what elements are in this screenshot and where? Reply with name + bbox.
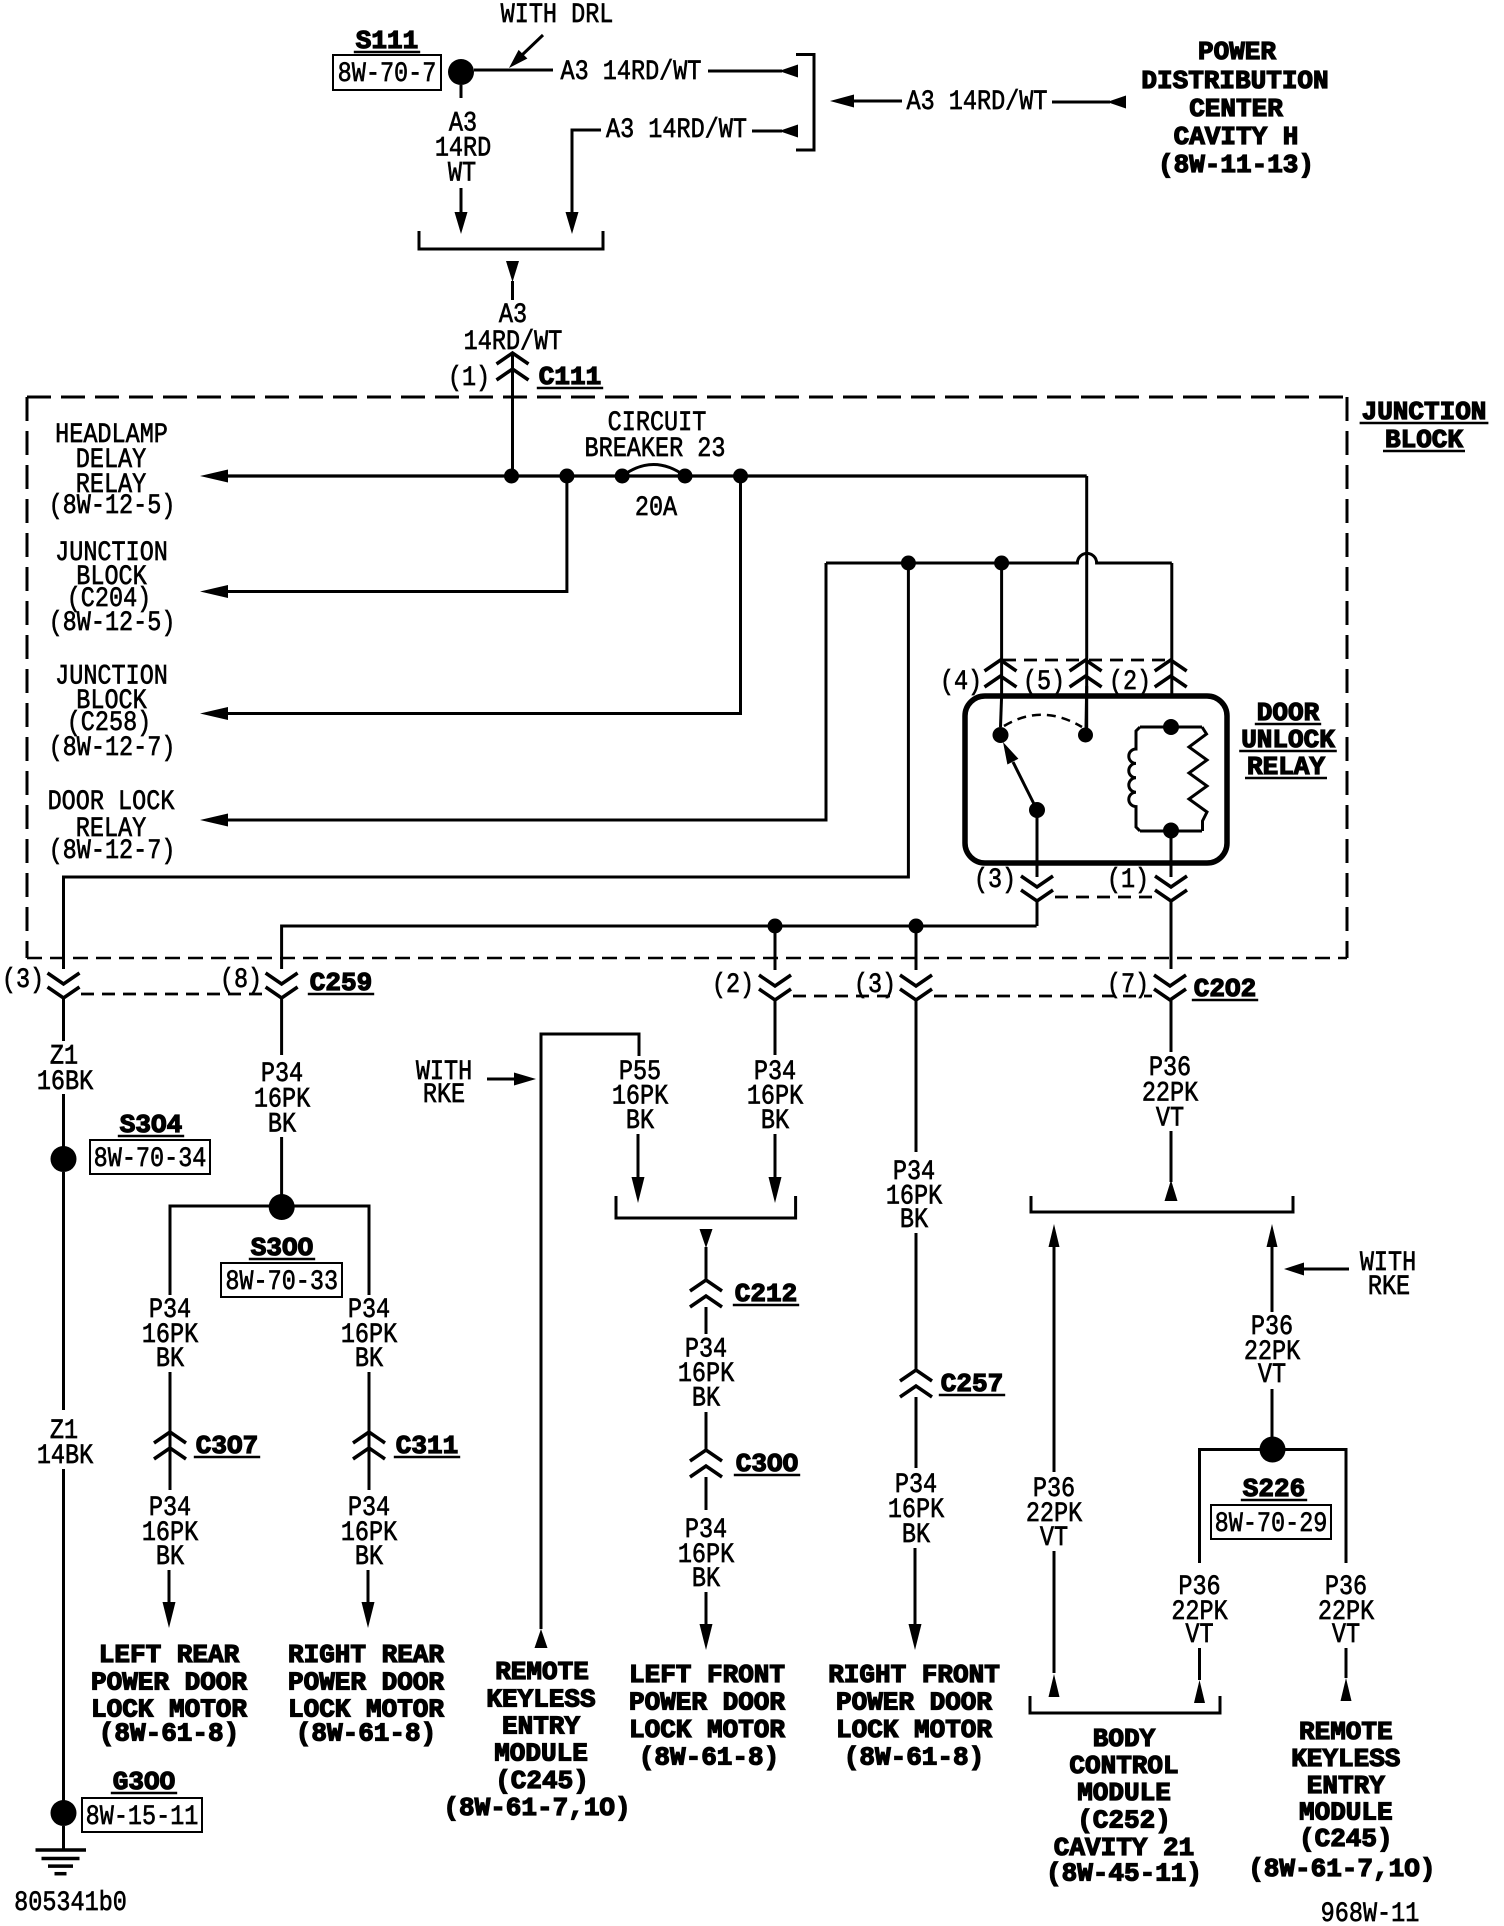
svg-text:BK: BK	[268, 1109, 297, 1140]
svg-text:16BK: 16BK	[37, 1066, 94, 1097]
svg-text:POWER DOOR: POWER DOOR	[91, 1668, 247, 1698]
svg-text:BODY: BODY	[1093, 1724, 1156, 1754]
pointer arrow from WITH DRL label to wire	[521, 35, 543, 56]
wire to C311	[368, 1372, 371, 1490]
svg-text:(1): (1)	[448, 362, 490, 393]
junction block dashed border	[27, 396, 1347, 399]
relay armature dashed travel arc	[1004, 715, 1082, 727]
wire stub below S111 dot	[460, 85, 463, 98]
svg-text:(8W-61-7,1O): (8W-61-7,1O)	[1248, 1854, 1435, 1884]
svg-text:(1): (1)	[1107, 864, 1149, 895]
merge bracket for A3 wires	[419, 231, 603, 249]
ground symbol	[62, 1826, 65, 1850]
svg-text:BK: BK	[355, 1541, 384, 1572]
relay pins 3 and 1 chevrons	[1021, 876, 1053, 887]
relay pin 4 contact dot	[1001, 696, 1002, 727]
wire S226 left to BCM	[1198, 1648, 1201, 1680]
svg-text:BK: BK	[156, 1541, 185, 1572]
wire continues to BCM connector	[1053, 1551, 1056, 1673]
svg-text:A3 14RD/WT: A3 14RD/WT	[606, 114, 747, 145]
splice G300 dot	[51, 1800, 77, 1826]
svg-text:RKE: RKE	[423, 1079, 465, 1110]
wire and arrow to merge bracket	[637, 1134, 640, 1178]
wire to S226 dot	[1271, 1389, 1274, 1437]
wire to G300	[62, 1469, 65, 1801]
motor feed line y926	[282, 926, 1037, 969]
svg-text:CONTROL: CONTROL	[1069, 1751, 1178, 1781]
relay coil/resistor top and bottom rails	[1140, 726, 1202, 729]
svg-text:LOCK MOTOR: LOCK MOTOR	[629, 1715, 785, 1745]
connector C311 chevrons	[353, 1432, 385, 1443]
box 8W-70-29	[1211, 1505, 1331, 1539]
svg-text:(8W-61-8): (8W-61-8)	[639, 1743, 779, 1773]
wire (2) column from feed line	[774, 926, 777, 970]
svg-text:(3): (3)	[2, 964, 44, 995]
node branch C258	[733, 469, 748, 484]
svg-text:VT: VT	[1156, 1103, 1184, 1134]
splice S226 dot	[1260, 1437, 1286, 1463]
svg-text:(8W-45-11): (8W-45-11)	[1046, 1859, 1202, 1889]
svg-text:ENTRY: ENTRY	[1307, 1771, 1385, 1801]
svg-text:(3): (3)	[854, 969, 896, 1000]
wire and arrow to merge bracket	[774, 1134, 777, 1178]
connector C212 chevrons	[690, 1280, 722, 1291]
connector C307 chevrons	[154, 1432, 186, 1443]
svg-text:(8W-61-8): (8W-61-8)	[296, 1719, 436, 1749]
arrow WITH RKE pointing to wire	[1303, 1268, 1349, 1271]
wire to BCM	[1053, 1247, 1056, 1472]
svg-text:REMOTE: REMOTE	[495, 1657, 589, 1687]
wire below merge bracket	[700, 1229, 713, 1248]
svg-text:MODULE: MODULE	[494, 1739, 588, 1769]
wire below C300	[705, 1477, 708, 1510]
box 8W-15-11	[82, 1798, 202, 1832]
svg-text:(8W-61-8): (8W-61-8)	[99, 1719, 239, 1749]
svg-text:A3 14RD/WT: A3 14RD/WT	[561, 56, 702, 87]
svg-text:(7): (7)	[1107, 969, 1149, 1000]
svg-text:8W-15-11: 8W-15-11	[86, 1801, 199, 1832]
wire (7) column below C202	[1170, 998, 1173, 1052]
wire below C257	[915, 1397, 918, 1468]
wire C111 into junction block	[511, 355, 514, 476]
wire to branch bracket	[1170, 1131, 1173, 1182]
node at C111 drop	[504, 469, 519, 484]
wire S304 down	[62, 1172, 65, 1410]
relay pin 3 wire	[1036, 810, 1039, 877]
svg-text:BK: BK	[156, 1343, 185, 1374]
svg-text:(C252): (C252)	[1077, 1806, 1171, 1836]
svg-text:BK: BK	[900, 1204, 929, 1235]
branch wire to junction block C204	[228, 476, 567, 592]
wire below (8) to P34 label	[280, 998, 283, 1055]
svg-text:8W-70-33: 8W-70-33	[225, 1266, 338, 1297]
relay coil (left branch)	[1129, 727, 1140, 831]
wire down to merge bracket with down arrow	[460, 188, 463, 214]
box 8W-70-33	[221, 1263, 342, 1297]
wire to C257	[915, 1233, 918, 1369]
svg-text:ENTRY: ENTRY	[502, 1712, 580, 1742]
svg-text:VT: VT	[1185, 1619, 1213, 1650]
node to door lock motors branch	[901, 556, 916, 571]
wire (3) column	[915, 926, 918, 970]
svg-text:(8W-12-5): (8W-12-5)	[49, 490, 176, 521]
svg-text:14BK: 14BK	[37, 1440, 94, 1471]
svg-text:(8W-12-7): (8W-12-7)	[49, 835, 176, 866]
svg-text:POWER DOOR: POWER DOOR	[288, 1668, 444, 1698]
terminal arrow into BCM right	[1194, 1680, 1205, 1703]
connector C300 chevrons	[690, 1450, 722, 1461]
svg-text:8W-70-7: 8W-70-7	[338, 58, 437, 89]
wire to C307	[169, 1372, 172, 1490]
S226 branch rails	[1200, 1450, 1347, 1564]
svg-text:(C245): (C245)	[495, 1766, 589, 1796]
svg-text:(2): (2)	[1109, 666, 1151, 697]
wire relay pin 2 corner	[1170, 563, 1173, 696]
relay switch blade with arrow	[1013, 762, 1037, 810]
terminal arrow into BCM	[1049, 1674, 1060, 1697]
svg-text:WITH DRL: WITH DRL	[501, 0, 614, 31]
circuit breaker 23	[615, 469, 630, 484]
svg-text:POWER DOOR: POWER DOOR	[836, 1688, 992, 1718]
relay resistor (right branch)	[1189, 727, 1207, 831]
relay switch pivot dot	[1029, 802, 1045, 818]
svg-text:POWER: POWER	[1198, 37, 1276, 67]
svg-text:LOCK MOTOR: LOCK MOTOR	[836, 1715, 992, 1745]
svg-text:VT: VT	[1332, 1619, 1360, 1650]
door unlock relay case	[965, 696, 1227, 863]
svg-text:MODULE: MODULE	[1077, 1778, 1171, 1808]
wire down-left to Z1 ground column	[64, 563, 909, 969]
wire and arrow into left rear motor	[168, 1570, 171, 1602]
branch bracket under C202 wire	[1031, 1196, 1293, 1212]
svg-text:BK: BK	[692, 1383, 721, 1414]
svg-text:VT: VT	[1258, 1359, 1286, 1390]
svg-text:LEFT REAR: LEFT REAR	[99, 1640, 240, 1670]
splice S304 dot	[51, 1146, 77, 1172]
svg-text:RIGHT REAR: RIGHT REAR	[288, 1640, 444, 1670]
node to connector 2	[768, 919, 783, 934]
node to connector 3	[909, 919, 924, 934]
wire below C212	[705, 1307, 708, 1334]
svg-text:(8W-12-7): (8W-12-7)	[49, 732, 176, 763]
terminal arrow into remote keyless entry module	[535, 1629, 548, 1648]
svg-text:A3 14RD/WT: A3 14RD/WT	[907, 86, 1048, 117]
svg-text:LEFT FRONT: LEFT FRONT	[629, 1660, 785, 1690]
wire and arrow into right front motor	[914, 1548, 917, 1624]
svg-text:CAVITY H: CAVITY H	[1174, 122, 1299, 152]
svg-text:DISTRIBUTION: DISTRIBUTION	[1141, 66, 1328, 96]
relay bottom node dot	[1163, 823, 1179, 839]
svg-text:VT: VT	[1040, 1522, 1068, 1553]
svg-text:POWER DOOR: POWER DOOR	[629, 1688, 785, 1718]
svg-text:(8W-11-13): (8W-11-13)	[1158, 150, 1314, 180]
merge bracket P55/P34	[616, 1196, 796, 1218]
svg-text:KEYLESS: KEYLESS	[486, 1685, 595, 1715]
svg-text:RKE: RKE	[1368, 1271, 1410, 1302]
bracket at PDC feed	[796, 55, 814, 151]
wire and arrow into right rear motor	[367, 1570, 370, 1602]
relay pin 1 wire	[1170, 831, 1173, 877]
svg-text:(8): (8)	[220, 964, 262, 995]
dashed row C259	[81, 993, 264, 996]
svg-text:8W-70-34: 8W-70-34	[94, 1143, 207, 1174]
svg-text:RIGHT FRONT: RIGHT FRONT	[828, 1660, 1000, 1690]
svg-text:(3): (3)	[974, 864, 1016, 895]
svg-text:BK: BK	[355, 1343, 384, 1374]
svg-text:805341b0: 805341b0	[14, 1887, 127, 1918]
second branch corner and label A3 14RD/WT	[572, 130, 601, 214]
wire to door lock relay	[228, 563, 826, 820]
box 8W-70-34	[90, 1140, 210, 1174]
svg-text:968W-11: 968W-11	[1321, 1898, 1420, 1926]
relay connector pins 4 5 2 chevrons	[985, 660, 1017, 671]
dashed row C202	[793, 995, 898, 998]
svg-text:(2): (2)	[712, 969, 754, 1000]
arrow WITH RKE to wire	[487, 1078, 516, 1081]
wire to relay pin 4	[1000, 563, 1003, 696]
distribution wire y563 with hop	[826, 553, 1172, 563]
svg-text:BK: BK	[626, 1105, 655, 1136]
start arrow right branch to S226	[1267, 1224, 1278, 1247]
wire to splice S300	[280, 1137, 283, 1196]
svg-text:BK: BK	[902, 1519, 931, 1550]
connector C259 chevrons (3)(8)	[48, 973, 80, 984]
node branch C204	[559, 469, 574, 484]
wire below (3) to Z1 label	[62, 998, 65, 1041]
svg-text:(8W-61-7,1O): (8W-61-7,1O)	[443, 1793, 630, 1823]
svg-text:BK: BK	[761, 1105, 790, 1136]
svg-text:(4): (4)	[940, 666, 982, 697]
svg-text:(C245): (C245)	[1299, 1824, 1393, 1854]
connector C257 chevrons	[900, 1370, 932, 1381]
dashed connector row through pins 4 5 2	[1003, 659, 1083, 662]
wire and arrow into left front motor	[705, 1592, 708, 1624]
splice S300 dot	[269, 1194, 295, 1220]
svg-text:KEYLESS: KEYLESS	[1291, 1744, 1400, 1774]
svg-text:WT: WT	[448, 158, 476, 189]
connector C202 chevrons (2)(3)(7)	[759, 975, 791, 986]
wire pin1 down through C202	[1170, 901, 1173, 969]
wire S226 right to RKE module	[1345, 1648, 1348, 1678]
node to relay pin 4	[994, 556, 1009, 571]
dashed row between pins 3 and 1	[1055, 896, 1153, 899]
svg-text:BK: BK	[692, 1563, 721, 1594]
RKE branch corner	[541, 1034, 639, 1629]
wire corner down to relay pin 5	[1085, 476, 1088, 736]
splice S111 dot	[448, 59, 474, 85]
branch wire to junction block C258	[228, 476, 741, 714]
box 8W-70-7	[333, 55, 441, 90]
wire down to S226	[1271, 1247, 1274, 1312]
svg-text:20A: 20A	[635, 492, 678, 523]
svg-text:(8W-12-5): (8W-12-5)	[49, 607, 176, 638]
wire to PDC bracket lower with left arrowhead	[752, 130, 782, 133]
BCM connector bracket	[1030, 1696, 1220, 1713]
wire below merge bracket	[506, 261, 519, 282]
connector C111 chevrons	[497, 353, 529, 364]
terminal triangle above bracket	[1165, 1180, 1178, 1201]
wire pin3 down to motor feed line	[1036, 901, 1039, 926]
svg-text:CENTER: CENTER	[1189, 94, 1283, 124]
S300 branch rails	[170, 1206, 369, 1295]
svg-text:REMOTE: REMOTE	[1299, 1717, 1393, 1747]
svg-text:(8W-61-8): (8W-61-8)	[844, 1743, 984, 1773]
relay pin 5 wire and contact	[1085, 686, 1089, 728]
start arrow left BCM wire	[1049, 1224, 1060, 1247]
wire to splice S304	[62, 1094, 65, 1147]
wire S111 to A3 14RD/WT (upper)	[474, 69, 553, 72]
svg-text:(5): (5)	[1023, 666, 1065, 697]
svg-text:MODULE: MODULE	[1299, 1798, 1393, 1828]
main feed wire with arrow to headlamp delay relay	[200, 470, 228, 483]
relay coil and resistor top node	[1163, 719, 1179, 735]
wire PDC to bracket with arrows	[830, 95, 854, 108]
svg-text:BREAKER 23: BREAKER 23	[585, 433, 726, 464]
terminal arrow into RKE module	[1341, 1678, 1352, 1701]
svg-text:8W-70-29: 8W-70-29	[1215, 1508, 1328, 1539]
wire to C300	[705, 1412, 708, 1450]
wire to PDC bracket upper with left arrowhead	[708, 70, 782, 73]
